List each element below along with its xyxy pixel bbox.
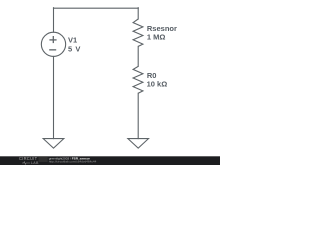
label R0 value 10 kΩ bbox=[147, 71, 168, 88]
svg-text:http://circuitlab.com/c64dvd46: http://circuitlab.com/c64dvd464c44 bbox=[49, 160, 97, 164]
ground left bbox=[43, 139, 64, 149]
resistor R2 R0 bbox=[133, 66, 143, 93]
wire between resistors bbox=[137, 46, 139, 66]
resistor R1 Rsesnor bbox=[133, 19, 143, 46]
voltage source V1 bbox=[41, 32, 65, 56]
credits text bbox=[49, 156, 97, 163]
wire right branch lower bbox=[137, 93, 139, 138]
wire top horizontal bbox=[54, 7, 139, 9]
wire left branch upper bbox=[53, 8, 55, 33]
svg-text:V: V bbox=[75, 45, 80, 54]
label V1 value 5 V bbox=[68, 36, 80, 54]
wire left branch lower bbox=[53, 56, 55, 138]
svg-text:10 kΩ: 10 kΩ bbox=[147, 79, 168, 88]
svg-text:5: 5 bbox=[68, 45, 72, 54]
svg-text:LAB: LAB bbox=[31, 161, 39, 165]
wire right branch upper bbox=[137, 8, 139, 19]
CircuitLab logo bbox=[39, 156, 48, 162]
ground right bbox=[128, 139, 149, 149]
label Rsesnor value 1 MΩ bbox=[147, 24, 177, 41]
svg-text:1 MΩ: 1 MΩ bbox=[147, 32, 166, 41]
svg-text:V1: V1 bbox=[68, 36, 77, 45]
watermark bar bbox=[0, 156, 220, 165]
